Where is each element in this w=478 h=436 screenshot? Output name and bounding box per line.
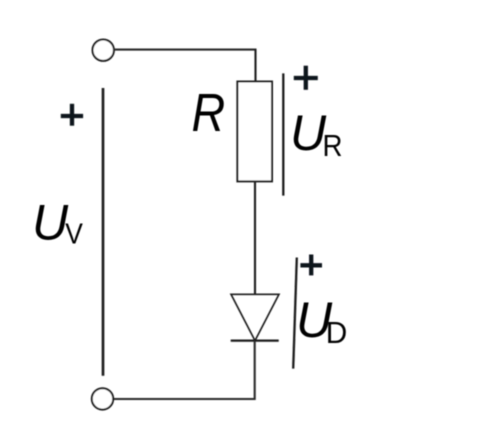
svg-text:U: U	[290, 105, 327, 161]
plus sign Ur	[294, 66, 318, 90]
svg-text:V: V	[65, 219, 83, 251]
voltage indicator line Ud	[293, 258, 297, 369]
resistor R1 body	[237, 82, 272, 182]
diode D1 cathode bar	[231, 339, 279, 341]
plus sign Ud	[300, 255, 322, 276]
terminal circle bottom	[92, 388, 113, 409]
wire top vertical to resistor	[254, 50, 256, 82]
wire diode to bottom	[114, 341, 255, 399]
voltage indicator line Uv	[102, 88, 105, 376]
svg-text:R: R	[323, 128, 343, 163]
diode D1 triangle	[231, 294, 279, 340]
voltage indicator line Ur	[282, 73, 284, 195]
svg-text:U: U	[32, 194, 69, 250]
svg-text:R: R	[192, 84, 226, 143]
wire top horizontal	[115, 49, 257, 51]
svg-text:D: D	[326, 315, 348, 350]
plus sign Uv	[61, 104, 83, 126]
wire resistor to diode	[254, 181, 256, 294]
terminal circle top	[93, 40, 114, 61]
